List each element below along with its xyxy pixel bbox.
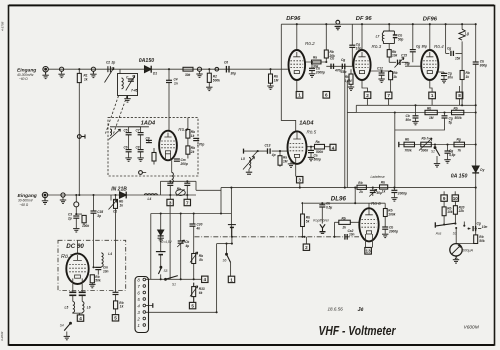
svg-text:DF96: DF96 bbox=[423, 16, 438, 22]
svg-text:3p: 3p bbox=[97, 214, 101, 218]
svg-text:DL96: DL96 bbox=[331, 195, 347, 202]
svg-text:1k: 1k bbox=[466, 75, 470, 79]
svg-text:Rö.7: Rö.7 bbox=[61, 254, 73, 260]
svg-text:DF 96: DF 96 bbox=[356, 16, 373, 22]
svg-text:7: 7 bbox=[137, 284, 140, 289]
svg-text:Jé: Jé bbox=[358, 307, 364, 313]
svg-text:~60 Ω: ~60 Ω bbox=[19, 77, 28, 81]
svg-text:1AD4: 1AD4 bbox=[141, 121, 156, 127]
svg-text:Rö.2: Rö.2 bbox=[305, 41, 315, 46]
svg-text:4-2049: 4-2049 bbox=[0, 331, 4, 341]
svg-text:Rb: Rb bbox=[427, 107, 431, 111]
svg-text:1k: 1k bbox=[191, 134, 195, 138]
svg-text:13: 13 bbox=[366, 249, 372, 254]
svg-text:15p: 15p bbox=[341, 70, 347, 74]
svg-text:4n: 4n bbox=[196, 226, 201, 230]
svg-text:2k: 2k bbox=[190, 150, 195, 154]
svg-text:2=4,5V: 2=4,5V bbox=[161, 240, 173, 244]
svg-text:S5: S5 bbox=[164, 269, 168, 273]
svg-text:Rö.3: Rö.3 bbox=[372, 44, 382, 49]
svg-text:7: 7 bbox=[387, 93, 390, 98]
svg-text:3: 3 bbox=[298, 178, 301, 183]
svg-text:6: 6 bbox=[137, 290, 140, 295]
svg-text:L4: L4 bbox=[108, 252, 112, 256]
svg-text:500k: 500k bbox=[421, 149, 428, 153]
svg-text:C15: C15 bbox=[401, 54, 407, 58]
svg-text:C5: C5 bbox=[124, 129, 128, 133]
svg-text:Rb: Rb bbox=[342, 216, 346, 220]
svg-text:10k: 10k bbox=[447, 210, 453, 214]
svg-text:500p: 500p bbox=[314, 157, 321, 161]
svg-text:Cg: Cg bbox=[341, 58, 345, 62]
svg-text:5: 5 bbox=[114, 316, 117, 321]
svg-text:C6: C6 bbox=[124, 146, 128, 150]
svg-text:C2: C2 bbox=[106, 61, 110, 65]
svg-text:10p: 10p bbox=[356, 46, 362, 50]
svg-text:1k: 1k bbox=[382, 190, 386, 194]
svg-text:DC 90: DC 90 bbox=[66, 243, 84, 250]
svg-text:0,5µ: 0,5µ bbox=[326, 205, 332, 209]
svg-text:C1: C1 bbox=[113, 210, 117, 214]
svg-text:1M: 1M bbox=[274, 79, 279, 83]
svg-text:Rb: Rb bbox=[358, 181, 362, 185]
svg-text:Rb: Rb bbox=[381, 181, 385, 185]
svg-text:1: 1 bbox=[230, 277, 233, 282]
svg-text:10n: 10n bbox=[349, 233, 355, 237]
svg-text:Cb: Cb bbox=[330, 57, 334, 61]
svg-text:5k: 5k bbox=[306, 219, 310, 223]
svg-text:7k: 7k bbox=[458, 149, 462, 153]
svg-text:L4: L4 bbox=[148, 197, 152, 201]
svg-text:50p: 50p bbox=[398, 37, 404, 41]
svg-text:100µA: 100µA bbox=[462, 249, 474, 253]
svg-text:Kopfhörer: Kopfhörer bbox=[313, 219, 330, 223]
svg-text:C8: C8 bbox=[136, 146, 140, 150]
svg-text:700k: 700k bbox=[405, 149, 412, 153]
svg-text:0A 150: 0A 150 bbox=[451, 173, 468, 179]
svg-text:S4: S4 bbox=[60, 324, 64, 328]
svg-text:1k: 1k bbox=[393, 75, 397, 79]
svg-text:1k: 1k bbox=[120, 203, 124, 207]
svg-text:170p: 170p bbox=[197, 143, 204, 147]
svg-text:L7: L7 bbox=[376, 35, 380, 39]
svg-text:V600M: V600M bbox=[464, 325, 479, 331]
svg-text:Ra: Ra bbox=[316, 140, 320, 144]
svg-text:2k: 2k bbox=[342, 225, 347, 229]
svg-text:4: 4 bbox=[137, 303, 140, 308]
svg-text:4p: 4p bbox=[271, 153, 276, 157]
svg-text:2: 2 bbox=[136, 316, 140, 321]
svg-text:Cg: Cg bbox=[416, 45, 420, 49]
svg-text:L5: L5 bbox=[241, 157, 245, 161]
svg-text:100k: 100k bbox=[388, 212, 395, 216]
svg-text:4: 4 bbox=[204, 277, 207, 282]
svg-text:1: 1 bbox=[137, 323, 140, 328]
svg-text:Rg: Rg bbox=[457, 138, 461, 142]
svg-text:C6: C6 bbox=[224, 61, 228, 65]
svg-text:5µ: 5µ bbox=[449, 120, 453, 124]
svg-text:500k: 500k bbox=[213, 79, 220, 83]
svg-text:5: 5 bbox=[191, 304, 194, 309]
svg-text:C13: C13 bbox=[265, 144, 271, 148]
svg-text:IN 21B: IN 21B bbox=[111, 187, 127, 193]
svg-text:Rb h: Rb h bbox=[422, 137, 429, 141]
svg-text:2k: 2k bbox=[358, 190, 363, 194]
svg-text:S3: S3 bbox=[453, 231, 457, 235]
svg-text:2p: 2p bbox=[67, 216, 72, 220]
svg-text:D1: D1 bbox=[153, 72, 157, 76]
svg-text:8: 8 bbox=[458, 93, 461, 98]
svg-text:1M: 1M bbox=[429, 116, 434, 120]
svg-text:7-45: 7-45 bbox=[131, 89, 138, 93]
svg-text:Aus: Aus bbox=[435, 231, 442, 235]
svg-text:22k: 22k bbox=[458, 209, 465, 213]
svg-text:Dy: Dy bbox=[480, 168, 484, 172]
svg-text:4,5p: 4,5p bbox=[448, 153, 455, 157]
svg-text:10n: 10n bbox=[103, 269, 109, 273]
svg-text:8: 8 bbox=[137, 277, 140, 282]
svg-text:5: 5 bbox=[137, 297, 140, 302]
svg-text:S2: S2 bbox=[431, 150, 435, 154]
svg-text:L5: L5 bbox=[65, 306, 69, 310]
svg-text:S6: S6 bbox=[223, 259, 227, 263]
svg-text:Cg: Cg bbox=[477, 222, 481, 226]
svg-text:Ra: Ra bbox=[313, 56, 317, 60]
svg-text:10k: 10k bbox=[392, 54, 398, 58]
svg-text:1M: 1M bbox=[283, 159, 288, 163]
svg-text:C9: C9 bbox=[146, 137, 150, 141]
svg-text:VHF - Voltmeter: VHF - Voltmeter bbox=[319, 324, 397, 338]
svg-text:1: 1 bbox=[431, 93, 434, 98]
svg-text:6: 6 bbox=[325, 93, 328, 98]
svg-text:500k: 500k bbox=[455, 116, 462, 120]
svg-text:50n: 50n bbox=[406, 118, 412, 122]
svg-text:3: 3 bbox=[169, 200, 172, 205]
svg-text:4µ: 4µ bbox=[185, 244, 190, 248]
svg-text:10: 10 bbox=[453, 196, 459, 201]
svg-text:1: 1 bbox=[298, 93, 301, 98]
svg-text:DF96: DF96 bbox=[286, 16, 301, 22]
svg-text:6k: 6k bbox=[199, 291, 203, 295]
svg-text:2000p: 2000p bbox=[388, 229, 398, 233]
svg-text:2: 2 bbox=[366, 93, 369, 98]
svg-text:1k: 1k bbox=[120, 305, 124, 309]
svg-text:C12: C12 bbox=[377, 67, 383, 71]
svg-text:4: 4 bbox=[79, 316, 82, 321]
svg-text:Rö.4: Rö.4 bbox=[434, 44, 444, 49]
svg-text:2: 2 bbox=[305, 245, 308, 250]
svg-text:4: 4 bbox=[332, 145, 335, 150]
svg-text:100k: 100k bbox=[82, 224, 89, 228]
svg-text:4-5708: 4-5708 bbox=[0, 21, 4, 31]
svg-text:50k: 50k bbox=[95, 279, 101, 283]
svg-text:3: 3 bbox=[137, 310, 140, 315]
svg-text:Lg: Lg bbox=[465, 32, 469, 36]
svg-text:200p: 200p bbox=[180, 162, 188, 166]
svg-text:1k: 1k bbox=[84, 78, 88, 82]
svg-text:18.6.56: 18.6.56 bbox=[328, 307, 344, 312]
svg-text:7: 7 bbox=[186, 200, 189, 205]
svg-text:2p: 2p bbox=[111, 61, 116, 65]
svg-text:30n: 30n bbox=[448, 75, 454, 79]
svg-text:C7: C7 bbox=[136, 129, 140, 133]
svg-text:Rö 6: Rö 6 bbox=[371, 201, 381, 206]
svg-text:9: 9 bbox=[443, 196, 446, 201]
svg-text:L6: L6 bbox=[87, 306, 91, 310]
svg-text:~68 Ω: ~68 Ω bbox=[20, 203, 29, 207]
svg-text:Rb: Rb bbox=[177, 187, 181, 191]
svg-text:Rö.5: Rö.5 bbox=[307, 129, 317, 134]
svg-text:2000p: 2000p bbox=[397, 192, 407, 196]
svg-text:Rb: Rb bbox=[454, 107, 458, 111]
svg-text:Ladeferse: Ladeferse bbox=[371, 175, 385, 179]
svg-text:Rö.1: Rö.1 bbox=[178, 127, 188, 132]
svg-text:30k: 30k bbox=[185, 73, 191, 77]
svg-text:8k: 8k bbox=[199, 258, 203, 262]
svg-text:Cg: Cg bbox=[447, 47, 451, 51]
svg-text:15k: 15k bbox=[455, 57, 461, 61]
svg-text:S1: S1 bbox=[172, 283, 176, 287]
svg-text:1n: 1n bbox=[174, 82, 178, 86]
svg-text:2000p: 2000p bbox=[315, 71, 325, 75]
svg-text:30-600mV: 30-600mV bbox=[18, 199, 34, 203]
svg-text:10n: 10n bbox=[482, 225, 488, 229]
svg-text:2.: 2. bbox=[454, 255, 459, 260]
svg-text:800p: 800p bbox=[480, 63, 487, 67]
svg-text:1,2M: 1,2M bbox=[345, 79, 352, 83]
svg-text:30p: 30p bbox=[422, 45, 428, 49]
svg-text:1AD4: 1AD4 bbox=[299, 121, 314, 127]
svg-text:30p: 30p bbox=[231, 72, 237, 76]
svg-text:Rb: Rb bbox=[405, 138, 409, 142]
svg-text:10p: 10p bbox=[405, 62, 411, 66]
svg-text:50k: 50k bbox=[479, 239, 485, 243]
svg-text:0A150: 0A150 bbox=[139, 58, 154, 64]
